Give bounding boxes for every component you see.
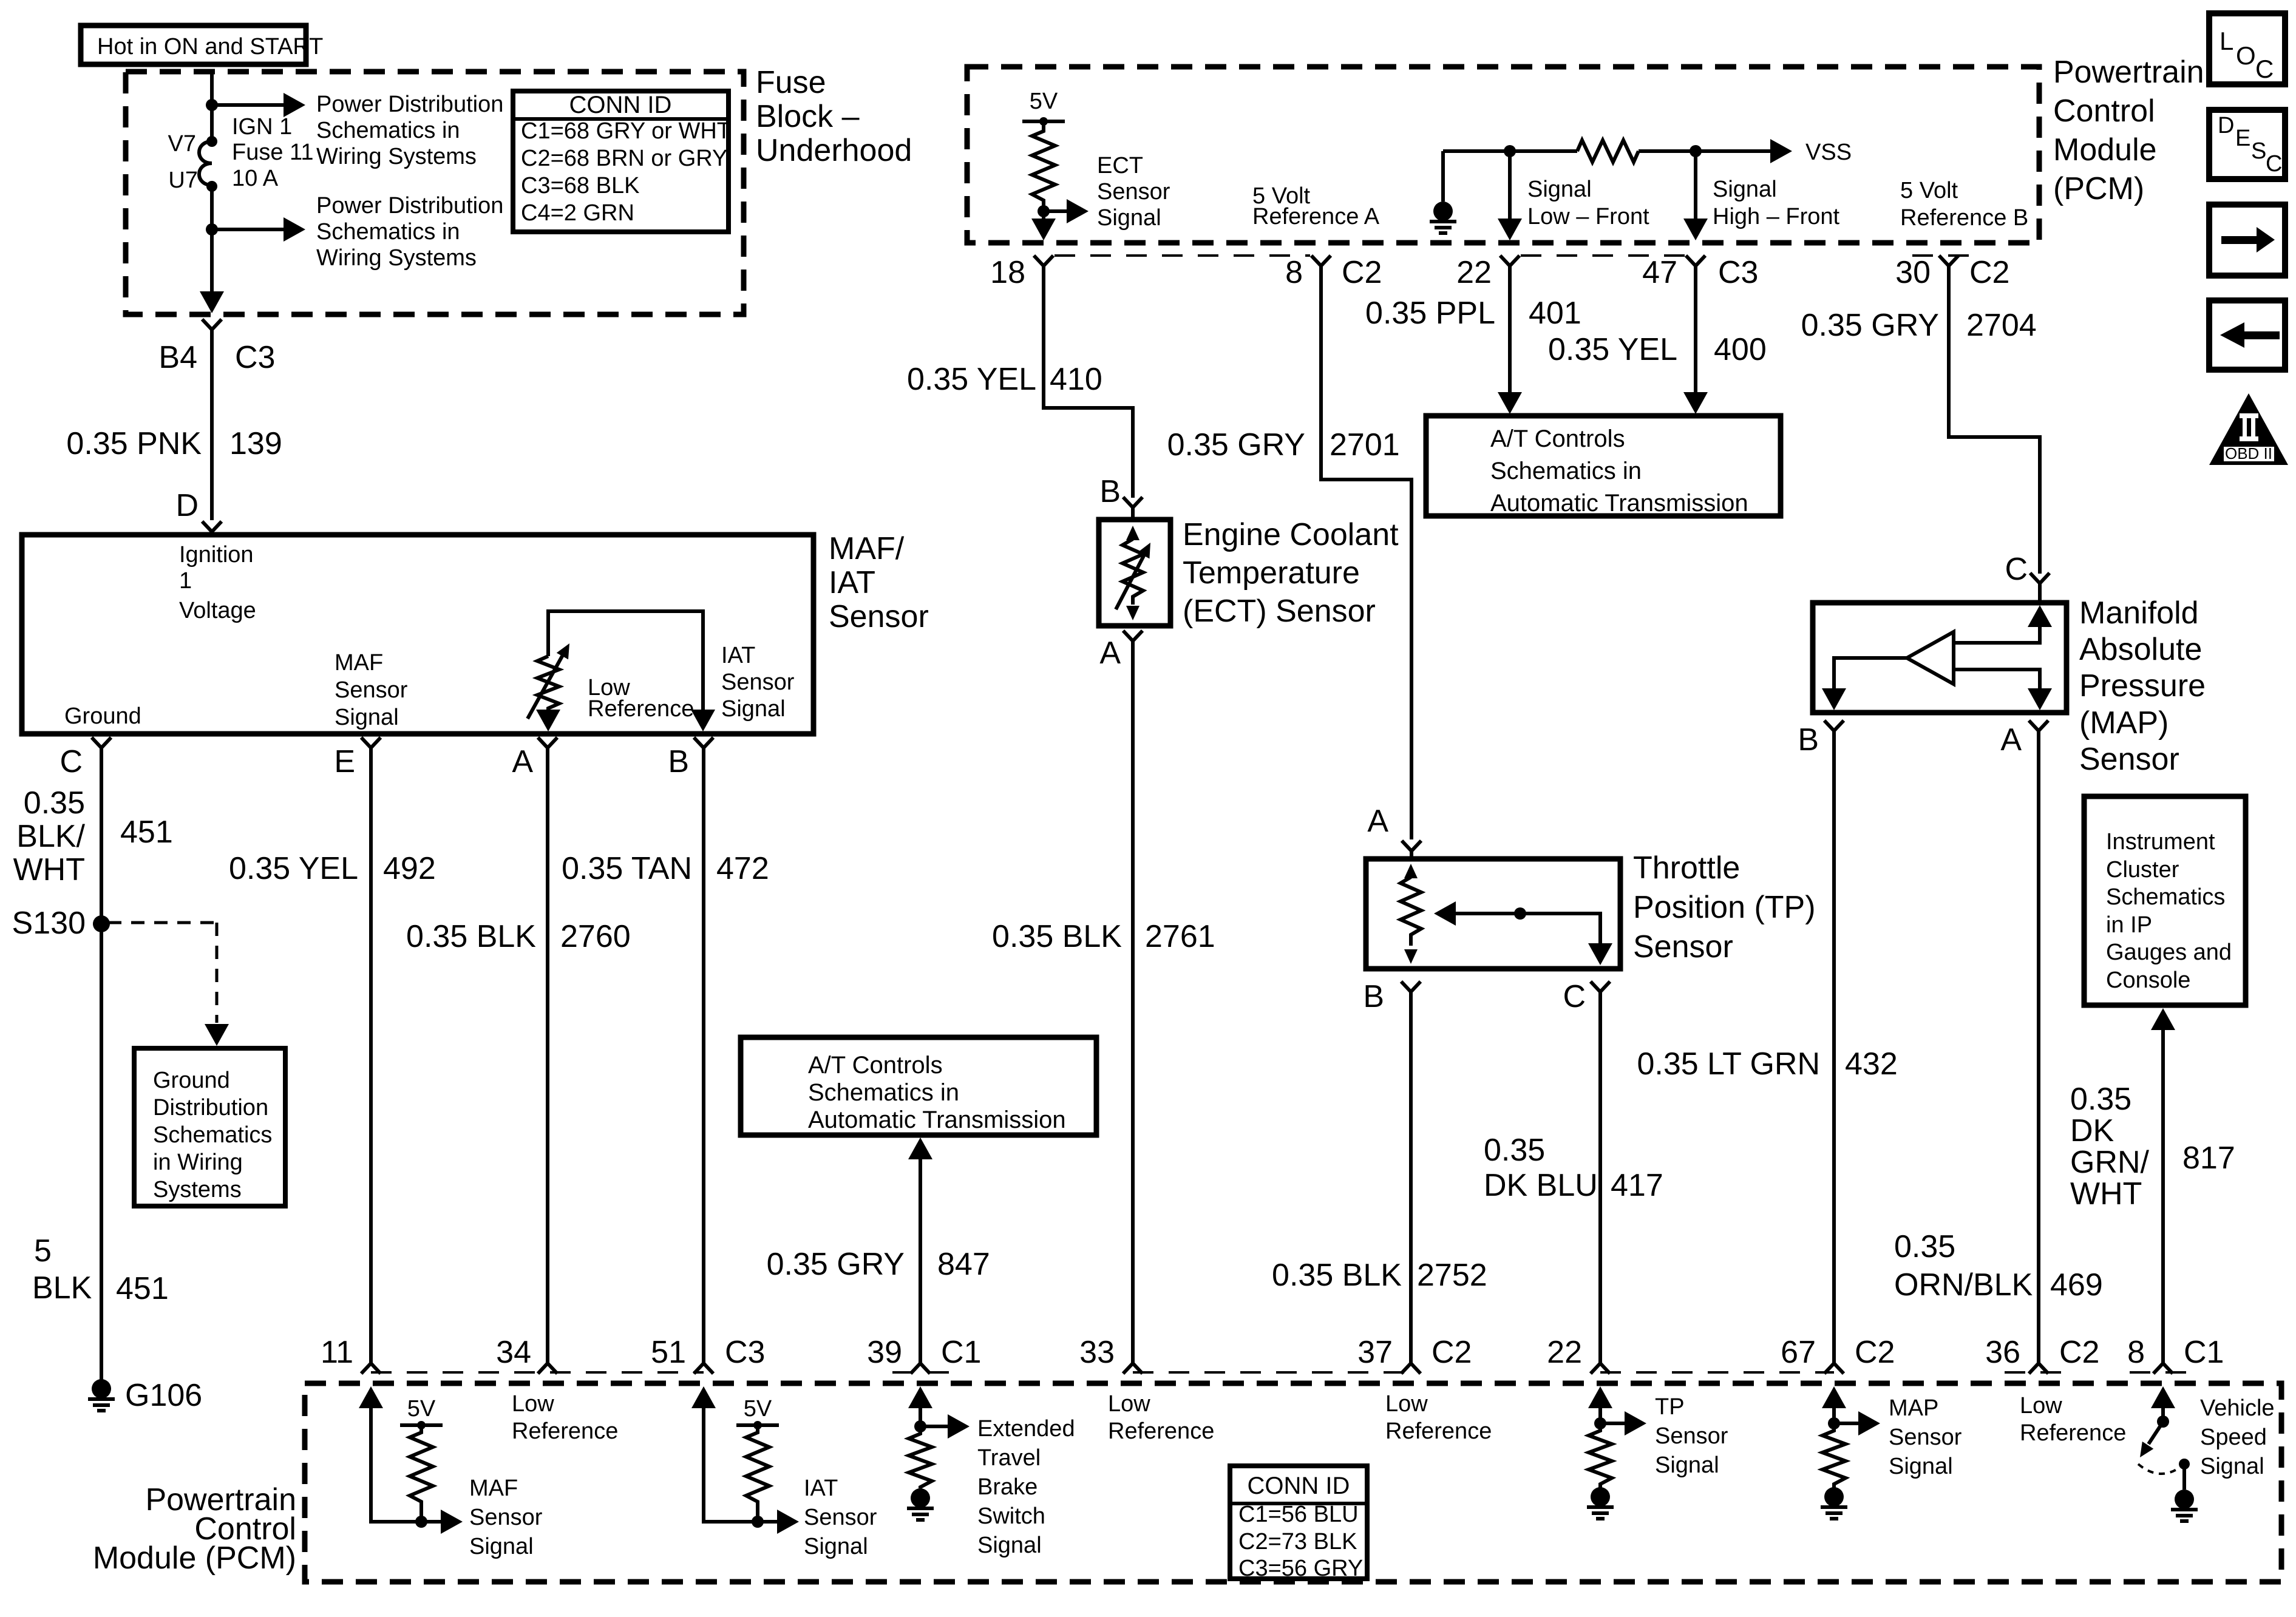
svg-text:0.35 LT GRN: 0.35 LT GRN xyxy=(1637,1046,1820,1082)
switch lever VSS xyxy=(2135,1425,2161,1461)
svg-text:Reference: Reference xyxy=(512,1419,618,1444)
svg-text:8: 8 xyxy=(2127,1335,2145,1370)
resistor IAT internal xyxy=(746,1425,769,1522)
svg-text:MAF: MAF xyxy=(335,650,383,676)
label Low Reference 37 xyxy=(1385,1391,1492,1444)
svg-text:Sensor: Sensor xyxy=(1633,929,1733,964)
svg-text:(PCM): (PCM) xyxy=(2053,171,2144,206)
svg-text:Low: Low xyxy=(1385,1391,1428,1417)
svg-text:Fuse 11: Fuse 11 xyxy=(232,140,313,165)
svg-text:8: 8 xyxy=(1285,255,1303,290)
MAP sensor box xyxy=(1813,603,2067,713)
svg-text:D: D xyxy=(2218,113,2234,138)
svg-text:0.35: 0.35 xyxy=(1894,1229,1955,1264)
svg-text:High – Front: High – Front xyxy=(1713,204,1840,229)
svg-text:Voltage: Voltage xyxy=(179,598,256,623)
svg-text:Throttle: Throttle xyxy=(1633,850,1740,886)
connector dashed line top C3 xyxy=(1521,254,1685,257)
terminal 51 C3 xyxy=(651,1335,765,1374)
svg-text:IAT: IAT xyxy=(804,1476,838,1501)
svg-text:Automatic Transmission: Automatic Transmission xyxy=(1490,490,1748,517)
svg-text:C: C xyxy=(1563,979,1586,1014)
svg-text:Underhood: Underhood xyxy=(756,133,912,168)
svg-text:Reference B: Reference B xyxy=(1900,205,2028,231)
svg-text:Engine Coolant: Engine Coolant xyxy=(1183,517,1399,552)
wire 417 DK BLU xyxy=(1598,992,1602,1363)
svg-text:Reference: Reference xyxy=(588,696,694,722)
svg-text:Sensor: Sensor xyxy=(829,599,929,634)
svg-text:C2: C2 xyxy=(1342,255,1382,290)
ground internal PCM xyxy=(1430,151,1456,233)
wire VSS switch internal xyxy=(2151,1386,2175,1419)
svg-text:5 Volt: 5 Volt xyxy=(1900,178,1958,203)
svg-text:IAT: IAT xyxy=(721,643,755,668)
wire ECT to border arrow xyxy=(1031,211,1056,240)
svg-text:0.35: 0.35 xyxy=(2070,1082,2131,1117)
svg-text:Power Distribution: Power Distribution xyxy=(316,193,503,219)
svg-text:451: 451 xyxy=(116,1271,169,1306)
label Vehicle Speed Signal xyxy=(2200,1395,2275,1479)
arrow to power distribution 2 xyxy=(212,217,305,242)
svg-text:E: E xyxy=(2235,126,2250,151)
svg-text:Vehicle: Vehicle xyxy=(2200,1395,2275,1421)
svg-text:400: 400 xyxy=(1714,332,1767,367)
svg-text:C1: C1 xyxy=(941,1335,981,1370)
label MAF/IAT Sensor xyxy=(829,531,929,634)
label 0.35 BLK 2761 xyxy=(992,919,1215,954)
label 0.35 ORN/BLK 469 xyxy=(1894,1229,2103,1303)
svg-text:A: A xyxy=(2000,722,2022,758)
svg-text:Control: Control xyxy=(2053,93,2155,129)
svg-text:47: 47 xyxy=(1642,255,1677,290)
label 0.35 PNK 139 xyxy=(66,426,282,461)
label MAP Sensor Signal bottom xyxy=(1889,1395,1962,1479)
svg-text:Systems: Systems xyxy=(153,1177,242,1202)
svg-text:Schematics in: Schematics in xyxy=(316,219,460,245)
label Powertrain Control Module (PCM) top xyxy=(2053,55,2204,206)
svg-text:0.35: 0.35 xyxy=(1484,1133,1545,1168)
5V supply bar ECT xyxy=(1022,89,1065,126)
svg-text:Signal: Signal xyxy=(335,705,399,730)
label Low Reference 34 xyxy=(512,1391,618,1444)
wire 2701 GRY 5V ref A xyxy=(1321,266,1411,839)
label 0.35 GRY 847 xyxy=(767,1247,990,1282)
label Signal High Front xyxy=(1713,177,1840,229)
ground MAP internal xyxy=(1821,1487,1847,1519)
label MAF Sensor Signal bottom xyxy=(469,1476,543,1559)
wire 2760 BLK xyxy=(546,748,549,1363)
svg-text:492: 492 xyxy=(383,851,436,886)
ground brake switch xyxy=(907,1488,934,1520)
arrow TP sensor signal xyxy=(1600,1411,1646,1436)
svg-text:E: E xyxy=(334,744,355,779)
svg-text:Distribution: Distribution xyxy=(153,1095,268,1120)
svg-text:Reference: Reference xyxy=(2020,1420,2126,1446)
svg-text:67: 67 xyxy=(1781,1335,1816,1370)
svg-text:Powertrain: Powertrain xyxy=(2053,55,2204,90)
Fuse Block Underhood dashed box xyxy=(126,72,744,314)
wire 847 GRY xyxy=(908,1137,932,1363)
svg-text:469: 469 xyxy=(2050,1267,2103,1303)
label MAF Sensor Signal xyxy=(335,650,408,730)
terminal A xyxy=(512,737,557,779)
wire 817 DK GRN/WHT xyxy=(2151,1008,2175,1363)
junction dot TP signal xyxy=(1594,1417,1606,1429)
connector dashed line top C2 xyxy=(1055,254,1310,257)
junction dot MAP signal xyxy=(1828,1417,1840,1429)
svg-text:Schematics in: Schematics in xyxy=(1490,458,1642,484)
svg-text:S130: S130 xyxy=(12,906,86,941)
svg-text:Low: Low xyxy=(512,1391,554,1417)
Instrument Cluster box xyxy=(2084,796,2246,1005)
svg-text:5: 5 xyxy=(34,1233,52,1269)
svg-text:Temperature: Temperature xyxy=(1183,555,1360,591)
svg-text:36: 36 xyxy=(1985,1335,2020,1370)
arrow exiting fuse block xyxy=(200,291,224,313)
svg-text:Signal: Signal xyxy=(1655,1453,1719,1478)
svg-text:O: O xyxy=(2236,41,2256,70)
svg-text:TP: TP xyxy=(1655,1394,1685,1420)
label 0.35 GRY 2701 xyxy=(1167,427,1400,463)
wire 401 PPL to AT controls xyxy=(1498,266,1522,414)
svg-text:DK: DK xyxy=(2070,1113,2114,1148)
resistor MAF internal xyxy=(410,1425,433,1522)
svg-text:C: C xyxy=(2266,151,2282,177)
wire TP signal internal xyxy=(1588,1386,1612,1423)
svg-text:IGN 1: IGN 1 xyxy=(232,114,292,140)
svg-text:39: 39 xyxy=(867,1335,902,1370)
svg-text:B: B xyxy=(668,744,689,779)
CONN ID table (PCM) xyxy=(1230,1466,1367,1581)
label 0.35 BLK 2752 xyxy=(1272,1258,1487,1293)
label 5 BLK 451 xyxy=(32,1233,169,1306)
svg-text:34: 34 xyxy=(496,1335,531,1370)
wire signal low to border xyxy=(1498,151,1522,240)
connector dashed line top 30 xyxy=(1912,254,1984,257)
label Low Reference 36 xyxy=(2020,1393,2126,1446)
junction dot lower xyxy=(206,223,218,236)
terminal 33 xyxy=(1079,1335,1143,1374)
svg-text:(ECT) Sensor: (ECT) Sensor xyxy=(1183,594,1376,629)
amplifier triangle MAP xyxy=(1907,632,1954,684)
wire 2752 BLK xyxy=(1409,992,1413,1363)
svg-text:V7: V7 xyxy=(168,131,196,157)
svg-text:B: B xyxy=(1798,722,1819,758)
svg-text:5V: 5V xyxy=(744,1396,772,1422)
wire 2761 BLK xyxy=(1131,641,1135,1363)
label 0.35 YEL 410 xyxy=(907,362,1102,397)
terminal 30 C2 xyxy=(1895,255,2009,290)
svg-text:Signal: Signal xyxy=(721,696,786,722)
svg-text:Gauges and: Gauges and xyxy=(2106,940,2232,965)
label 0.35 TAN 472 xyxy=(562,851,769,886)
svg-text:Automatic Transmission: Automatic Transmission xyxy=(808,1107,1066,1133)
svg-text:BLK: BLK xyxy=(32,1270,92,1306)
wire 432 LT GRN xyxy=(1832,731,1836,1363)
label 0.35 GRY 2704 xyxy=(1801,308,2037,343)
svg-text:Reference: Reference xyxy=(1108,1419,1214,1444)
junction dot ECT signal xyxy=(1038,205,1050,217)
svg-text:Pressure: Pressure xyxy=(2079,668,2206,703)
label TP Sensor Signal xyxy=(1655,1394,1728,1478)
5V bar IAT xyxy=(736,1396,779,1429)
terminal 39 C1 xyxy=(867,1335,981,1374)
svg-text:Low: Low xyxy=(1108,1391,1150,1417)
svg-text:0.35 PPL: 0.35 PPL xyxy=(1365,296,1495,331)
label IAT Sensor Signal xyxy=(721,643,795,722)
svg-text:Manifold: Manifold xyxy=(2079,595,2199,631)
label Ignition 1 Voltage xyxy=(179,542,256,623)
wire MAP signal internal xyxy=(1822,1386,1846,1423)
svg-text:2752: 2752 xyxy=(1417,1258,1487,1293)
svg-text:472: 472 xyxy=(716,851,769,886)
wire D stub xyxy=(210,532,214,535)
arrow ECT sensor signal xyxy=(1044,199,1089,223)
wire MAF signal internal xyxy=(359,1386,421,1522)
terminal 22 bottom xyxy=(1547,1335,1610,1374)
A/T Controls box middle xyxy=(741,1037,1096,1135)
label 0.35 BLK/WHT 451 xyxy=(13,785,173,887)
fuse F11 symbol xyxy=(199,136,217,192)
svg-text:Schematics in: Schematics in xyxy=(808,1079,959,1106)
label power distribution 1 xyxy=(316,92,503,169)
svg-text:in Wiring: in Wiring xyxy=(153,1150,243,1175)
terminal E xyxy=(334,737,381,779)
TP sensor box xyxy=(1366,859,1620,969)
svg-text:C2: C2 xyxy=(1969,255,2009,290)
icon left arrow box xyxy=(2209,300,2285,370)
junction dot MAF signal xyxy=(415,1516,427,1528)
svg-text:S: S xyxy=(2251,138,2266,164)
resistor MAP internal xyxy=(1822,1423,1846,1488)
wire C stub MAP xyxy=(2038,583,2042,603)
svg-text:C4=2 GRN: C4=2 GRN xyxy=(521,200,634,226)
svg-text:2761: 2761 xyxy=(1145,919,1215,954)
label 0.35 PPL 401 xyxy=(1365,296,1581,331)
junction dot IAT signal xyxy=(752,1516,764,1528)
resistor brake switch xyxy=(909,1426,932,1488)
svg-text:Wiring Systems: Wiring Systems xyxy=(316,144,477,169)
svg-text:IAT: IAT xyxy=(829,565,875,600)
svg-text:Position (TP): Position (TP) xyxy=(1633,890,1816,925)
svg-text:C1=56 BLU: C1=56 BLU xyxy=(1238,1502,1359,1527)
label Low Reference xyxy=(588,675,694,722)
resistor VSS xyxy=(1577,140,1639,162)
svg-text:817: 817 xyxy=(2182,1141,2235,1176)
svg-text:Signal: Signal xyxy=(469,1534,534,1559)
svg-text:Sensor: Sensor xyxy=(2079,742,2179,777)
svg-text:U7: U7 xyxy=(168,168,198,193)
label 5 Volt Reference A xyxy=(1252,183,1380,229)
label power distribution 2 xyxy=(316,193,503,271)
svg-text:C2: C2 xyxy=(1855,1335,1895,1370)
svg-text:A: A xyxy=(512,744,533,779)
svg-text:A: A xyxy=(1099,636,1121,671)
wire 469 ORN/BLK xyxy=(2037,731,2040,1363)
terminal 47 C3 xyxy=(1642,255,1758,290)
svg-text:0.35 YEL: 0.35 YEL xyxy=(229,851,358,886)
arrow MAP sensor signal xyxy=(1834,1411,1880,1436)
svg-text:C2: C2 xyxy=(1432,1335,1472,1370)
svg-text:Sensor: Sensor xyxy=(1889,1425,1962,1450)
svg-text:Low – Front: Low – Front xyxy=(1527,204,1649,229)
arrow IAT sensor signal xyxy=(758,1510,799,1534)
wire IAT signal internal xyxy=(691,1386,758,1522)
wire to VSS ground xyxy=(2182,1464,2186,1490)
terminal 8 C1 xyxy=(2127,1335,2224,1374)
svg-text:C: C xyxy=(2005,552,2028,587)
label 0.35 LT GRN 432 xyxy=(1637,1046,1897,1082)
svg-text:C2: C2 xyxy=(2059,1335,2099,1370)
svg-text:C3: C3 xyxy=(235,340,275,375)
svg-text:22: 22 xyxy=(1456,255,1492,290)
resistor MAF low reference (variable) xyxy=(528,640,576,731)
label Engine Coolant Temperature (ECT) Sensor xyxy=(1183,517,1399,629)
svg-text:A/T Controls: A/T Controls xyxy=(1490,425,1625,452)
svg-text:Ignition: Ignition xyxy=(179,542,254,568)
wire signal high to border xyxy=(1683,151,1708,240)
svg-text:(MAP): (MAP) xyxy=(2079,705,2169,741)
resistor TP internal xyxy=(1589,1423,1612,1488)
svg-text:CONN ID: CONN ID xyxy=(1248,1473,1350,1499)
icon right arrow box xyxy=(2209,205,2285,276)
terminal A TP xyxy=(1367,804,1421,851)
svg-text:Brake: Brake xyxy=(977,1474,1038,1500)
junction dot upper xyxy=(206,99,218,111)
svg-text:139: 139 xyxy=(229,426,282,461)
svg-text:401: 401 xyxy=(1529,296,1581,331)
svg-text:5V: 5V xyxy=(407,1396,436,1422)
svg-text:ECT: ECT xyxy=(1097,153,1143,178)
svg-text:0.35 YEL: 0.35 YEL xyxy=(907,362,1036,397)
wire 139 PNK xyxy=(210,330,214,520)
label ECT Sensor Signal xyxy=(1097,153,1170,231)
label Throttle Position (TP) Sensor xyxy=(1633,850,1816,964)
svg-text:GRN/: GRN/ xyxy=(2070,1145,2150,1180)
terminal B xyxy=(668,737,713,779)
terminal C xyxy=(59,737,111,779)
label Low Reference 33 xyxy=(1108,1391,1214,1444)
svg-text:WHT: WHT xyxy=(2070,1176,2142,1212)
A/T Controls box top xyxy=(1426,416,1781,517)
label Extended Travel Brake Switch Signal xyxy=(977,1416,1075,1558)
ECT sensor box xyxy=(1099,520,1170,626)
5V bar MAF xyxy=(400,1396,443,1429)
terminal 18 xyxy=(990,255,1053,290)
svg-text:Schematics: Schematics xyxy=(2106,884,2225,910)
svg-text:410: 410 xyxy=(1050,362,1102,397)
svg-text:Ground: Ground xyxy=(64,703,141,729)
junction dot brake switch xyxy=(914,1420,926,1432)
connector dashed line bottom C3 group xyxy=(371,1371,704,1374)
svg-text:CONN ID: CONN ID xyxy=(569,92,672,118)
svg-text:Sensor: Sensor xyxy=(1655,1423,1728,1449)
svg-text:Signal: Signal xyxy=(1713,177,1777,202)
wire A stub TP xyxy=(1410,851,1413,859)
ground TP internal xyxy=(1587,1487,1614,1519)
connector dashed line bottom 22-67 xyxy=(1600,1371,1834,1374)
svg-text:C2=73 BLK: C2=73 BLK xyxy=(1238,1529,1357,1554)
label 0.35 BLK 2760 xyxy=(406,919,631,954)
terminal 8 C2 xyxy=(1285,255,1382,290)
wire MAP C internal xyxy=(1954,605,2052,643)
PCM top dashed box xyxy=(967,67,2039,243)
wire VSS bus xyxy=(1443,149,1577,153)
svg-text:0.35 BLK: 0.35 BLK xyxy=(1272,1258,1402,1293)
svg-text:22: 22 xyxy=(1547,1335,1582,1370)
svg-text:0.35 GRY: 0.35 GRY xyxy=(1801,308,1939,343)
svg-text:C: C xyxy=(2255,55,2274,83)
label 0.35 YEL 492 xyxy=(229,851,436,886)
wire ignition feed upper xyxy=(210,72,214,141)
svg-text:Sensor: Sensor xyxy=(335,677,408,703)
thermistor ECT xyxy=(1116,526,1156,620)
svg-text:Schematics in: Schematics in xyxy=(316,118,460,143)
connector dashed line bottom 39 xyxy=(892,1371,950,1374)
svg-text:Cluster: Cluster xyxy=(2106,857,2179,883)
svg-text:51: 51 xyxy=(651,1335,686,1370)
svg-text:Wiring Systems: Wiring Systems xyxy=(316,245,477,271)
wire 2704 GRY to MAP C xyxy=(1949,266,2040,574)
svg-text:0.35 BLK: 0.35 BLK xyxy=(992,919,1122,954)
svg-text:B: B xyxy=(1099,474,1121,509)
svg-text:Power Distribution: Power Distribution xyxy=(316,92,503,117)
ground VSS switch xyxy=(2171,1490,2198,1521)
svg-text:C3=56 GRY: C3=56 GRY xyxy=(1238,1556,1363,1581)
connector dashed line bottom 33-37 xyxy=(1133,1371,1411,1374)
svg-text:B4: B4 xyxy=(158,340,197,375)
wire VSS to arrow xyxy=(1639,139,1792,163)
terminal B MAP xyxy=(1798,720,1844,758)
svg-text:C1=68 GRY or WHT: C1=68 GRY or WHT xyxy=(521,118,731,144)
svg-text:Module: Module xyxy=(2053,132,2157,168)
svg-text:G106: G106 xyxy=(125,1378,202,1413)
svg-text:C2=68 BRN or GRY: C2=68 BRN or GRY xyxy=(521,146,727,171)
svg-text:2704: 2704 xyxy=(1966,308,2037,343)
svg-text:WHT: WHT xyxy=(13,852,85,887)
svg-text:Sensor: Sensor xyxy=(804,1505,877,1530)
svg-text:C3: C3 xyxy=(725,1335,765,1370)
svg-text:0.35 BLK: 0.35 BLK xyxy=(406,919,536,954)
svg-text:2701: 2701 xyxy=(1330,427,1400,463)
arrow to power distribution 1 xyxy=(212,93,305,117)
svg-text:B: B xyxy=(1363,979,1384,1014)
arrow extended travel brake xyxy=(920,1414,970,1439)
svg-text:Signal: Signal xyxy=(2200,1454,2264,1479)
svg-text:Signal: Signal xyxy=(1527,177,1592,202)
terminal B TP xyxy=(1363,979,1421,1014)
resistor TP xyxy=(1401,864,1421,964)
svg-text:L: L xyxy=(2220,27,2233,55)
svg-text:0.35 YEL: 0.35 YEL xyxy=(1548,332,1677,367)
label 0.35 DK GRN/WHT 817 xyxy=(2070,1082,2235,1212)
wire 451 BLK/WHT xyxy=(100,748,103,1380)
svg-text:0.35: 0.35 xyxy=(24,785,85,821)
svg-text:1: 1 xyxy=(179,568,192,594)
label Fuse Block Underhood xyxy=(756,65,912,168)
svg-text:33: 33 xyxy=(1079,1335,1115,1370)
wiper TP xyxy=(1434,901,1612,965)
Ground Distribution box xyxy=(134,1048,285,1206)
wire MAP A internal xyxy=(1954,670,2052,710)
svg-text:MAF/: MAF/ xyxy=(829,531,905,566)
terminal C MAP xyxy=(2005,552,2050,587)
label IGN 1 Fuse 11 10 A xyxy=(232,114,313,191)
svg-text:11: 11 xyxy=(321,1335,353,1370)
svg-text:Ground: Ground xyxy=(153,1068,230,1093)
svg-text:OBD II: OBD II xyxy=(2225,444,2272,463)
wire ignition feed lower xyxy=(210,186,214,303)
